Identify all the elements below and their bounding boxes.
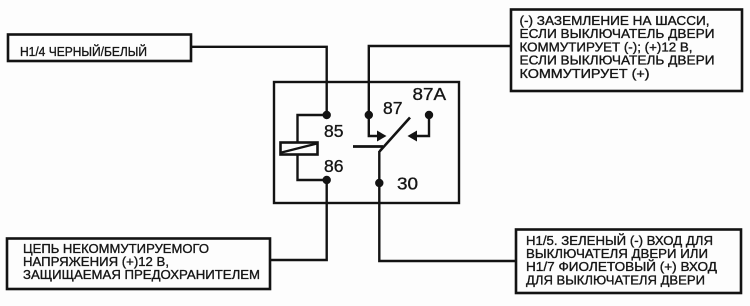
contact 87A stub with arrow bbox=[408, 115, 430, 142]
contact 87 stub with arrow bbox=[369, 115, 387, 142]
label box unswitched +12V circuit (bottom-left) bbox=[7, 239, 270, 290]
svg-text:87A: 87A bbox=[413, 84, 447, 104]
label box door switch input (bottom-right) bbox=[516, 230, 741, 294]
svg-text:87: 87 bbox=[383, 98, 402, 118]
svg-text:85: 85 bbox=[324, 121, 343, 141]
wire from H1/4 box to coil bbox=[191, 47, 327, 115]
svg-text:Н1/4 ЧЕРНЫЙ/БЕЛЫЙ: Н1/4 ЧЕРНЫЙ/БЕЛЫЙ bbox=[20, 44, 147, 59]
wire pin 30 down to door-switch box bbox=[379, 183, 516, 261]
label box chassis ground (top-right) bbox=[511, 10, 742, 92]
svg-text:ЗАЩИЩАЕМАЯ ПРЕДОХРАНИТЕЛЕМ: ЗАЩИЩАЕМАЯ ПРЕДОХРАНИТЕЛЕМ bbox=[23, 267, 260, 282]
wire blade pivot to pin 30 bbox=[378, 151, 380, 183]
svg-text:86: 86 bbox=[324, 156, 343, 176]
node pin 87 bbox=[365, 111, 373, 119]
wire coil to pin 86 bbox=[298, 154, 327, 180]
svg-text:КОММУТИРУЕТ (+): КОММУТИРУЕТ (+) bbox=[520, 66, 650, 81]
relay coil bbox=[281, 143, 318, 155]
relay outline box bbox=[274, 82, 459, 203]
svg-text:30: 30 bbox=[397, 174, 418, 194]
label box H1/4 (top-left) bbox=[8, 35, 191, 62]
node pin 87A bbox=[425, 111, 433, 119]
node pin 85 bbox=[323, 111, 331, 119]
wire pin 85 to coil bbox=[298, 115, 327, 142]
node pin 30 bbox=[375, 179, 383, 187]
actuator bar bbox=[353, 145, 383, 148]
wire pin 86 down to fused-voltage box bbox=[270, 180, 327, 260]
node pin 86 bbox=[323, 176, 331, 184]
switch blade bbox=[380, 118, 411, 152]
svg-text:ДЛЯ ВЫКЛЮЧАТЕЛЯ ДВЕРИ: ДЛЯ ВЫКЛЮЧАТЕЛЯ ДВЕРИ bbox=[526, 272, 705, 287]
wire from pin 87 up and to chassis-ground box bbox=[369, 46, 511, 115]
